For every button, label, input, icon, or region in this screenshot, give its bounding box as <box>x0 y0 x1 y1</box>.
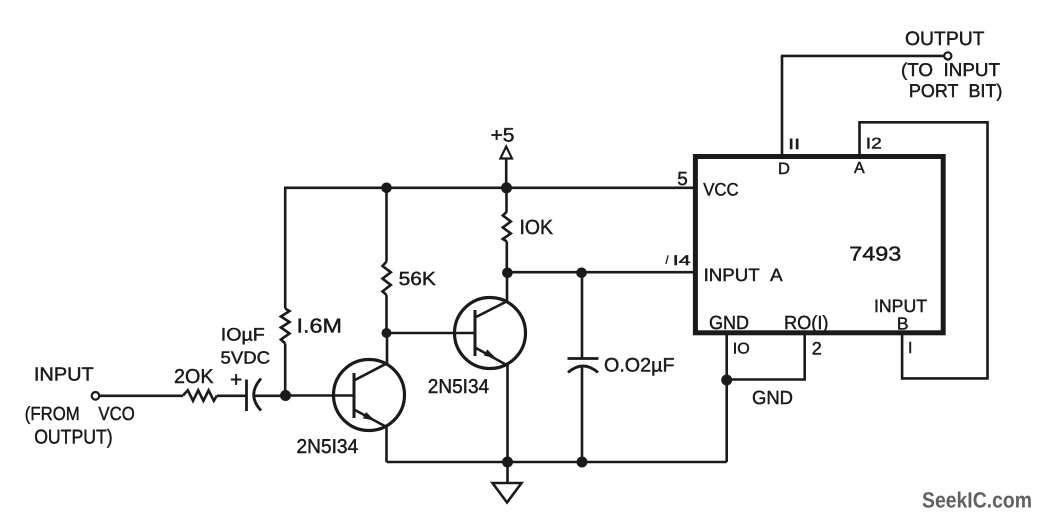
ground stub <box>506 462 509 483</box>
resistor R2 1.6M <box>281 309 290 344</box>
node F junction dot <box>576 268 587 279</box>
wire pin 2 RO(1) to node G <box>727 333 805 380</box>
svg-text:2N5I34: 2N5I34 <box>297 436 359 458</box>
wire node E to IC INPUT A <box>507 271 696 274</box>
svg-text:2OK: 2OK <box>174 366 214 388</box>
wire node C down to R4 <box>505 188 508 212</box>
svg-text:I4: I4 <box>673 252 691 268</box>
resistor R4 10K <box>503 212 511 242</box>
input terminal <box>92 392 100 400</box>
wire pin 12 A feedback loop <box>860 122 988 378</box>
wire R4 to node E <box>505 242 508 273</box>
transistor Q1 2N5134 <box>334 360 405 431</box>
resistor R3 56K <box>383 262 391 296</box>
svg-text:A: A <box>854 160 865 177</box>
svg-text:SeekIC.com: SeekIC.com <box>922 487 1032 512</box>
resistor R1 20K <box>183 390 217 401</box>
wire Q2 collector up to node E <box>506 273 509 302</box>
svg-text:56K: 56K <box>399 269 437 290</box>
svg-text:INPUT A: INPUT A <box>704 265 783 285</box>
wire Q2 emitter down to bottom rail <box>506 365 509 462</box>
wire input to R1 <box>99 394 183 397</box>
svg-text:II: II <box>788 136 800 153</box>
wire R1 to C1 <box>217 394 246 397</box>
svg-text:+: + <box>230 369 242 392</box>
svg-text:+5: +5 <box>491 125 515 147</box>
svg-text:I.6M: I.6M <box>297 316 343 338</box>
svg-text:7493: 7493 <box>849 243 901 265</box>
wire bottom rail <box>387 461 727 464</box>
wire output horizontal <box>781 55 944 58</box>
svg-text:GND: GND <box>752 388 793 409</box>
ground <box>493 483 522 503</box>
svg-text:O.O2µF: O.O2µF <box>604 355 675 377</box>
svg-text:PORT BIT): PORT BIT) <box>909 80 1003 101</box>
svg-text:5VDC: 5VDC <box>221 347 271 367</box>
node E junction dot <box>502 268 513 279</box>
wire node A up to R2 <box>284 344 287 396</box>
wire pin 11 D up to output <box>781 56 784 157</box>
svg-text:IOK: IOK <box>520 216 554 239</box>
wire C2 down to bottom rail <box>581 365 584 462</box>
svg-text:5: 5 <box>677 169 688 190</box>
svg-text:(TO INPUT: (TO INPUT <box>901 59 1000 80</box>
capacitor C1 10uF plates <box>247 379 262 412</box>
wire R3 to node D <box>385 295 388 333</box>
wire node F down to C2 <box>581 272 584 358</box>
svg-text:I2: I2 <box>866 135 882 152</box>
svg-text:OUTPUT): OUTPUT) <box>34 426 113 448</box>
svg-text:(FROM VCO: (FROM VCO <box>25 404 135 425</box>
node G junction dot <box>721 375 732 386</box>
node D junction dot <box>382 328 392 338</box>
node A junction dot <box>280 390 291 401</box>
node I junction dot <box>577 457 588 468</box>
wire pin 10 GND down to bottom rail <box>725 333 728 462</box>
svg-text:OUTPUT: OUTPUT <box>905 28 985 50</box>
wire top rail <box>284 187 697 190</box>
wire Q1 emitter down to bottom rail <box>385 427 388 462</box>
capacitor C2 0.02uF <box>568 359 599 373</box>
svg-text:RO(I): RO(I) <box>784 313 829 334</box>
svg-text:B: B <box>897 314 909 334</box>
transistor Q2 2N5134 <box>455 298 526 369</box>
wire node D down to Q1 collector <box>386 333 389 364</box>
svg-text:INPUT: INPUT <box>34 365 94 386</box>
svg-text:2: 2 <box>812 338 822 358</box>
node B junction dot on rail <box>381 183 392 194</box>
wire node D to Q2 base <box>387 332 476 335</box>
IC U1 7493 body <box>695 157 943 333</box>
node C junction dot on rail at +5 <box>501 182 512 193</box>
+5 supply arrow <box>500 147 512 188</box>
node H junction dot <box>502 457 513 468</box>
wire R2 to top rail <box>284 188 287 309</box>
svg-text:I: I <box>908 340 912 357</box>
wire node B down to R3 <box>385 188 388 262</box>
svg-text:2N5I34: 2N5I34 <box>428 376 489 398</box>
wire node A to Q1 base <box>286 394 355 397</box>
svg-text:D: D <box>778 160 790 178</box>
output terminal <box>944 52 951 59</box>
svg-text:IO: IO <box>733 340 750 357</box>
svg-text:VCC: VCC <box>703 180 739 200</box>
wire C1 to node A <box>255 394 286 397</box>
svg-text:IOµF: IOµF <box>221 324 265 344</box>
svg-text:GND: GND <box>709 313 749 334</box>
